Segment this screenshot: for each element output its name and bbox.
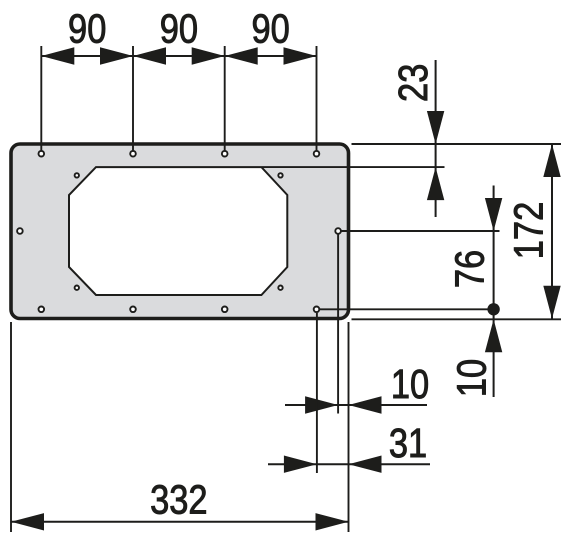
- svg-text:172: 172: [507, 202, 552, 259]
- mounting plate outline: [11, 144, 349, 319]
- extension line cutout top edge: [262, 166, 445, 168]
- hole cutout corner TR: [278, 173, 282, 177]
- extension line bottom hole row: [320, 308, 500, 310]
- arrow right-into T3: [192, 47, 225, 64]
- dim 332 line: [11, 521, 349, 523]
- hole top row 3: [222, 151, 228, 157]
- hole bottom row 2: [130, 307, 136, 313]
- hole top row 2: [130, 151, 136, 157]
- extension line bottom-right hole vertical: [316, 313, 318, 473]
- dim 76 down arrow: [485, 198, 502, 231]
- extension line mid-right hole row: [341, 230, 500, 232]
- extension line hole T4: [316, 46, 318, 151]
- hole bottom row 4: [314, 307, 320, 313]
- svg-text:76: 76: [448, 250, 493, 288]
- arrow right-into T2: [100, 47, 133, 64]
- extension line plate left edge vertical: [10, 322, 12, 532]
- dim 76 stem: [493, 186, 495, 398]
- dim 23 down arrow: [427, 111, 444, 144]
- dim 10h line: [285, 404, 427, 406]
- extension line hole T3: [224, 46, 226, 151]
- dim 332 left arrow: [11, 513, 44, 530]
- dim 10v up arrow: [485, 319, 502, 352]
- hole bottom row 3: [222, 307, 228, 313]
- hole cutout corner BR: [278, 286, 282, 290]
- dim 23 upper stem: [435, 60, 437, 217]
- svg-text:31: 31: [389, 421, 427, 466]
- hole bottom row 1: [39, 307, 45, 313]
- dim 31 right-pointing arrow: [284, 456, 317, 473]
- extension line plate right edge vertical: [348, 322, 350, 532]
- dim 172 up arrow: [543, 144, 560, 177]
- svg-text:90: 90: [251, 7, 289, 52]
- junction dot: [487, 303, 499, 315]
- svg-text:332: 332: [150, 478, 207, 523]
- hole cutout corner BL: [75, 286, 79, 290]
- hole cutout corner TL: [75, 173, 79, 177]
- extension line hole T2: [132, 46, 134, 151]
- hole mid left: [17, 228, 23, 234]
- dim 10h right-pointing arrow: [305, 396, 338, 413]
- arrow left-from T2: [133, 47, 166, 64]
- extension line plate top edge: [352, 143, 562, 145]
- extension line plate bottom edge: [352, 318, 562, 320]
- svg-text:23: 23: [391, 64, 436, 102]
- octagonal cutout: [69, 167, 287, 295]
- dim 332 right arrow: [316, 513, 349, 530]
- hole top row 4: [314, 151, 320, 157]
- dim 23 up arrow: [427, 167, 444, 200]
- dimension line 90/90/90: [41, 55, 316, 57]
- dim 31 line: [268, 463, 430, 465]
- svg-text:10: 10: [391, 362, 429, 407]
- svg-text:90: 90: [68, 7, 106, 52]
- dim 172 line: [551, 144, 553, 319]
- dim 31 left-pointing arrow: [349, 456, 382, 473]
- dim 172 down arrow: [543, 286, 560, 319]
- hole top row 1: [39, 151, 45, 157]
- arrow left-from T3: [225, 47, 258, 64]
- arrow left 90: [41, 47, 74, 64]
- dim 10h left-pointing arrow: [349, 396, 382, 413]
- svg-text:90: 90: [160, 7, 198, 52]
- svg-text:10: 10: [450, 359, 495, 397]
- arrow right 90: [284, 47, 317, 64]
- extension line mid-right hole vertical: [337, 235, 339, 414]
- hole mid right: [335, 228, 341, 234]
- extension line hole T1: [40, 46, 42, 151]
